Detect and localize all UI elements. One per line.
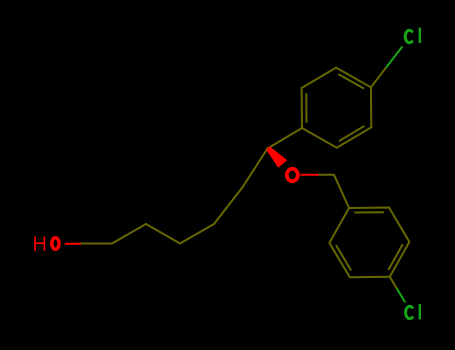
bottom ring: [329, 208, 409, 278]
chain C3-C4: [180, 224, 214, 244]
olive half of O-CH2 bond: [318, 174, 334, 176]
red bond O to CH2: [301, 174, 318, 176]
wedge bond S-O: [266, 146, 287, 167]
bond S to top ring: [268, 128, 303, 149]
HO text: H: [35, 236, 44, 250]
chain C2-C3: [146, 224, 180, 244]
top ring: [302, 68, 372, 148]
green half of bottom Cl bond: [397, 289, 405, 302]
ether O glyph: [287, 169, 298, 181]
olive half of bottom Cl bond: [390, 277, 398, 290]
red half of HO bond: [66, 243, 81, 245]
chain C1-C2: [112, 224, 146, 244]
chain C4-C5: [214, 187, 242, 224]
bottom ring inner aromatic lines: [355, 211, 383, 213]
HO text: O: [52, 238, 59, 249]
CH2 to bottom ring: [334, 175, 349, 208]
chain olive part of HO bond: [79, 243, 112, 245]
bottom Cl text: [406, 304, 420, 319]
green half of top Cl bond: [387, 47, 403, 67]
chain C5-S: [242, 149, 267, 188]
top Cl text: [405, 28, 420, 43]
top ring inner aromatic lines: [305, 94, 307, 122]
olive half of top Cl bond: [371, 67, 387, 87]
